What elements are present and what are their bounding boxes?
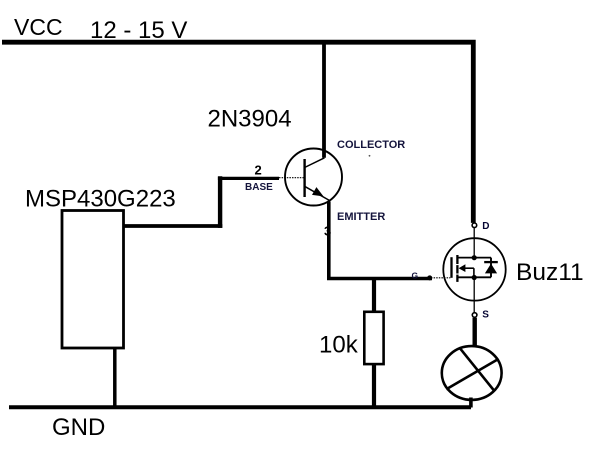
wire lamp bottom lead	[469, 398, 473, 408]
mosfet M1 source inner line	[457, 276, 491, 278]
svg-text:2: 2	[255, 163, 262, 178]
stray mark	[369, 155, 371, 157]
transistor Q1 emitter arrowhead	[312, 187, 324, 196]
svg-text:COLLECTOR: COLLECTOR	[337, 139, 405, 151]
wire base: horizontal from MSP430 box	[124, 224, 223, 228]
mosfet M1 Buz11 circle	[443, 238, 505, 300]
lamp L1 cross diagonal 1	[460, 348, 495, 391]
svg-text:BASE: BASE	[245, 182, 273, 193]
svg-text:D: D	[482, 221, 489, 232]
mosfet M1 body diode right vertical	[490, 258, 492, 278]
svg-text:Buz11: Buz11	[516, 259, 584, 286]
mosfet M1 drain inner line	[457, 257, 491, 259]
mosfet M1 channel segment middle	[456, 265, 458, 273]
mosfet M1 gate inner lead (thin)	[431, 277, 450, 279]
mosfet M1 gate bar	[450, 257, 452, 278]
svg-text:2N3904: 2N3904	[208, 106, 292, 133]
transistor Q1 base inner lead (thin)	[279, 177, 305, 179]
svg-text:S: S	[482, 309, 489, 320]
svg-text:VCC: VCC	[14, 14, 63, 40]
transistor Q1 emitter diagonal	[305, 186, 331, 201]
mosfet M1 channel segment top	[456, 255, 458, 264]
wire VCC rail with drop to MOSFET drain	[2, 42, 473, 223]
transistor Q1 collector diagonal	[305, 158, 325, 168]
lamp L1 circle	[442, 346, 502, 400]
wire base: vertical riser	[218, 176, 222, 228]
IC U1 MSP430G223 box	[62, 211, 124, 349]
terminal open circle S	[472, 313, 477, 318]
mosfet M1 channel segment bottom	[456, 275, 458, 282]
wire from S terminal to lamp	[473, 318, 477, 347]
svg-text:10k: 10k	[319, 332, 359, 359]
mosfet M1 substrate arrow shaft	[464, 267, 474, 269]
junction dot at gate wire end	[427, 275, 432, 280]
svg-text:MSP430G223: MSP430G223	[25, 186, 176, 213]
mosfet M1 drain thin lead	[473, 228, 475, 256]
mosfet M1 substrate arrowhead	[459, 264, 466, 272]
terminal open circle D	[472, 223, 477, 228]
junction dot source	[472, 275, 477, 280]
lamp L1 cross diagonal 2	[446, 359, 498, 389]
transistor Q1 circle	[285, 149, 342, 206]
wire from MSP430 box bottom to GND	[113, 348, 117, 409]
mosfet M1 source thin lead	[473, 280, 475, 313]
wire GND rail	[9, 405, 471, 409]
svg-text:EMITTER: EMITTER	[337, 211, 385, 223]
resistor R1 bottom lead	[372, 364, 376, 408]
svg-text:G: G	[412, 270, 419, 280]
junction dot drain	[472, 255, 477, 260]
wire collector riser from VCC rail	[322, 42, 326, 158]
wire base: horizontal to transistor	[218, 177, 279, 180]
mosfet M1 body diode cathode bar	[484, 261, 498, 263]
resistor R1 body	[364, 312, 383, 364]
svg-text:GND: GND	[52, 414, 105, 441]
resistor R1 top lead	[372, 278, 376, 312]
wire emitter vertical lead	[327, 202, 331, 280]
mosfet M1 body diode triangle	[485, 264, 497, 274]
wire emitter horizontal to gate	[327, 277, 432, 281]
mosfet M1 substrate-to-source vertical	[473, 268, 475, 277]
transistor Q1 base bar	[303, 159, 305, 197]
